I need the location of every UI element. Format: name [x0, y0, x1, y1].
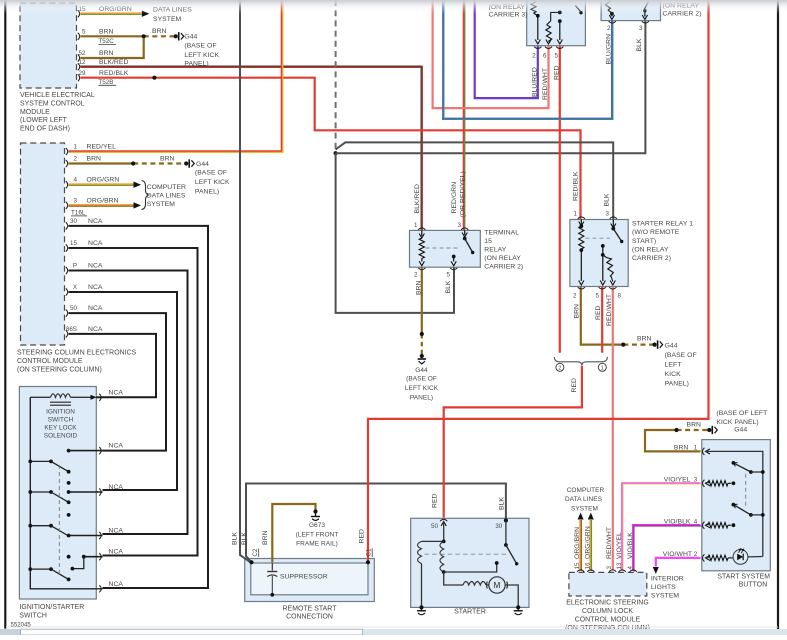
svg-text:NCA: NCA	[88, 240, 103, 247]
ground G44 (module1)	[178, 32, 180, 40]
wire ORG/BRN pin3 module2	[69, 204, 134, 207]
splice G44	[174, 34, 178, 38]
circled 2	[556, 363, 564, 371]
page frame right	[777, 0, 779, 629]
svg-text:X: X	[73, 284, 77, 291]
wire BLK terminal15 pin5 loop	[336, 153, 454, 313]
svg-text:NCA: NCA	[109, 549, 124, 556]
C1 junction	[366, 560, 370, 564]
wire NCA nest 3	[69, 271, 188, 535]
wire ORG/GRN pin4 module2	[69, 183, 134, 186]
motor M	[486, 584, 489, 586]
splice brace (2)(1)	[554, 357, 607, 366]
wire NCA switch pin4	[69, 535, 103, 537]
svg-text:CARRIER 2): CARRIER 2)	[484, 264, 523, 271]
button switch B	[732, 503, 736, 507]
starter switch contact	[444, 564, 497, 573]
svg-text:C1: C1	[366, 548, 373, 556]
wire RED/WHT carrier3 pin6 U-loop to top	[433, 0, 549, 108]
svg-text:INTERIOR: INTERIOR	[651, 576, 684, 583]
svg-text:15: 15	[484, 238, 492, 245]
svg-text:4: 4	[627, 566, 634, 570]
svg-text:(ON STEERING COLUMN): (ON STEERING COLUMN)	[17, 366, 102, 373]
svg-text:C2: C2	[252, 548, 259, 556]
wire BLU/GRN carrier2 pin2 U-loop to top	[443, 0, 613, 120]
svg-text:VEHICLE ELECTRICAL: VEHICLE ELECTRICAL	[20, 92, 95, 99]
terminal 15 relay (box)	[410, 230, 481, 267]
wire VIO/YEL ESCL pin13 to button pin3	[622, 483, 701, 572]
svg-text:DATA LINES: DATA LINES	[565, 496, 603, 503]
carrier3 resistor	[546, 25, 552, 42]
wire BRN pin 52 module1	[81, 38, 144, 58]
svg-text:BRN: BRN	[87, 156, 102, 163]
svg-text:50: 50	[431, 523, 438, 530]
svg-text:G44: G44	[734, 427, 747, 434]
svg-text:BRN: BRN	[160, 155, 175, 162]
svg-text:4: 4	[74, 177, 78, 184]
svg-text:RED: RED	[571, 378, 578, 393]
wire BLK (from top of page down to remote start C2)	[240, 0, 251, 562]
wire BRN suppressor to G673	[272, 504, 315, 562]
ground G44 (module2)	[188, 159, 190, 167]
carrier3 coil	[534, 47, 541, 49]
svg-text:BRN: BRN	[674, 445, 689, 452]
svg-text:ELECTRONIC STEERING: ELECTRONIC STEERING	[566, 600, 649, 607]
svg-text:IGNITION/STARTER: IGNITION/STARTER	[19, 604, 84, 611]
svg-text:G44: G44	[665, 343, 678, 350]
svg-text:LEFT KICK: LEFT KICK	[195, 179, 230, 186]
svg-text:BLU/RED: BLU/RED	[532, 67, 539, 97]
svg-text:COMPUTER: COMPUTER	[567, 487, 605, 494]
relay carrier 2 (box, cut at top)	[601, 0, 660, 21]
wire NCA nest 1	[69, 226, 209, 588]
svg-text:(LOWER LEFT: (LOWER LEFT	[20, 117, 68, 124]
svg-text:ORG/GRN: ORG/GRN	[585, 526, 592, 559]
svg-text:RED: RED	[554, 65, 561, 80]
wire NCA nest 5	[69, 313, 167, 451]
svg-text:86S: 86S	[66, 326, 77, 333]
junction pin5/52 BRN	[142, 34, 146, 38]
wire RED carrier3 pin5 down to splice brace 2	[559, 46, 561, 353]
wire NCA nest 6	[69, 334, 157, 397]
svg-text:BLK: BLK	[604, 193, 611, 206]
page frame left	[4, 0, 6, 629]
svg-text:BRN: BRN	[573, 304, 580, 319]
svg-text:8: 8	[618, 293, 622, 300]
terminal15 relay coil	[418, 228, 425, 230]
module: STEERING COLUMN ELECTRONICS CONTROL MODULE (box)	[21, 143, 65, 345]
svg-text:STARTER RELAY 1: STARTER RELAY 1	[632, 221, 693, 228]
button resistor pin2 + LED	[708, 555, 728, 560]
wire NCA switch pin3	[69, 491, 103, 493]
svg-text:NCA: NCA	[88, 326, 103, 333]
svg-text:30: 30	[495, 523, 502, 530]
button pin connectors	[703, 448, 705, 455]
svg-text:5: 5	[82, 29, 86, 36]
svg-text:RED: RED	[359, 529, 366, 544]
starter relay1 coil	[578, 217, 585, 219]
ground G44 (starter relay 1)	[657, 340, 659, 348]
svg-text:12: 12	[79, 59, 86, 66]
wire BLK splice to relay carrier2 pin3	[336, 21, 646, 153]
svg-text:3: 3	[606, 211, 610, 218]
wire NCA switch pin5	[84, 556, 103, 558]
svg-text:IGNITION: IGNITION	[46, 409, 75, 416]
button resistor pin4	[708, 523, 728, 528]
starter motor branch	[444, 572, 463, 585]
svg-text:1: 1	[601, 366, 604, 372]
svg-text:4: 4	[694, 518, 698, 525]
svg-text:T16L: T16L	[71, 210, 86, 217]
wire BRN start button pin1 to G44	[645, 430, 701, 451]
svg-text:15: 15	[70, 240, 77, 247]
svg-text:REMOTE START: REMOTE START	[283, 606, 338, 613]
svg-text:3: 3	[694, 477, 698, 484]
svg-text:(BASE OF: (BASE OF	[406, 376, 437, 383]
svg-text:NCA: NCA	[109, 443, 124, 450]
svg-text:CONTROL MODULE: CONTROL MODULE	[575, 617, 641, 624]
brace computer data lines	[142, 181, 149, 210]
svg-text:50: 50	[70, 305, 77, 312]
svg-text:5: 5	[555, 53, 559, 60]
svg-text:KICK PANEL): KICK PANEL)	[716, 419, 758, 426]
wire NCA switch pin2	[69, 450, 103, 452]
svg-text:(OR RED/YEL): (OR RED/YEL)	[460, 171, 467, 217]
svg-text:G44: G44	[184, 33, 197, 40]
dashed link starter	[425, 553, 510, 555]
svg-text:MODULE: MODULE	[20, 109, 50, 116]
wire RED/YEL pin1 module2 (up to top of page)	[69, 0, 283, 152]
svg-text:RED/GRN: RED/GRN	[451, 182, 458, 214]
svg-text:BLK: BLK	[241, 532, 248, 545]
svg-text:SYSTEM: SYSTEM	[153, 16, 182, 23]
carrier3 switch blade	[575, 6, 580, 12]
svg-text:T52B: T52B	[98, 79, 113, 86]
wire ORG/GRN pin 15 module1 to DATA LINES SYSTEM	[81, 12, 142, 15]
svg-text:RED: RED	[595, 305, 602, 320]
module: VEHICLE ELECTRICAL SYSTEM CONTROL MODULE (box)	[20, 3, 77, 88]
circled 1	[598, 363, 606, 371]
svg-text:30: 30	[70, 218, 77, 225]
svg-text:BRN: BRN	[637, 336, 652, 343]
svg-text:STARTER: STARTER	[454, 609, 486, 616]
electronic steering column lock control module (box)	[569, 572, 647, 596]
svg-text:VIO/WHT: VIO/WHT	[663, 551, 692, 558]
svg-text:CONNECTION: CONNECTION	[286, 614, 333, 621]
svg-text:(W/O REMOTE: (W/O REMOTE	[632, 229, 680, 236]
svg-text:G673: G673	[309, 522, 325, 529]
svg-text:2: 2	[607, 25, 611, 32]
wire BRN pin2 module2	[69, 162, 134, 164]
svg-text:RED/YEL: RED/YEL	[87, 144, 117, 151]
svg-text:NCA: NCA	[109, 484, 124, 491]
svg-text:BRN: BRN	[99, 50, 114, 57]
svg-text:BRN: BRN	[416, 280, 423, 295]
svg-text:16: 16	[585, 562, 592, 569]
svg-text:M: M	[494, 581, 501, 590]
wire NCA nest 4	[69, 292, 178, 490]
svg-text:P: P	[73, 263, 77, 270]
svg-text:PANEL): PANEL)	[184, 61, 208, 68]
svg-text:SYSTEM: SYSTEM	[651, 593, 680, 600]
ground G673	[315, 514, 317, 517]
svg-text:CONTROL MODULE: CONTROL MODULE	[17, 358, 83, 365]
starter pin 30 junction	[504, 518, 508, 522]
svg-text:SYSTEM: SYSTEM	[571, 506, 598, 513]
svg-text:DATA LINES: DATA LINES	[147, 193, 186, 200]
svg-text:3: 3	[639, 25, 643, 32]
wire BRN starter relay1 pin2 to G44	[581, 287, 624, 345]
button switch A	[732, 461, 736, 465]
svg-text:1: 1	[74, 144, 78, 151]
starter pin 50 connector	[440, 519, 447, 521]
svg-text:2: 2	[558, 366, 561, 372]
svg-text:(ON RELAY: (ON RELAY	[484, 255, 521, 262]
wire BRN dashed splice to G44	[144, 35, 176, 37]
svg-text:15: 15	[574, 562, 581, 569]
svg-text:13: 13	[616, 562, 623, 569]
switch blades ignition/starter switch	[28, 460, 32, 464]
ignition switch key lock solenoid	[96, 396, 102, 398]
suppressor (inner box)	[251, 563, 368, 595]
start system button (box)	[702, 440, 771, 571]
svg-text:BRN: BRN	[152, 28, 167, 35]
svg-text:(BASE OF: (BASE OF	[195, 170, 227, 177]
starter relay1 switch	[612, 220, 614, 227]
svg-text:SWITCH: SWITCH	[48, 417, 74, 424]
svg-text:BLK: BLK	[636, 38, 643, 51]
svg-text:RED/WHT: RED/WHT	[606, 527, 613, 559]
svg-text:VIO/BLK: VIO/BLK	[627, 532, 634, 559]
starter relay1 resistor	[601, 253, 605, 257]
button resistor pin3	[708, 481, 728, 486]
svg-text:RED/BLK: RED/BLK	[573, 171, 580, 201]
starter hold-in coil	[440, 541, 444, 572]
svg-text:BLU/GRN: BLU/GRN	[606, 34, 613, 65]
remote start connection (box)	[245, 559, 375, 602]
svg-text:SOLENOID: SOLENOID	[44, 433, 78, 440]
svg-text:BLK: BLK	[498, 497, 505, 510]
starter pull-in coil	[422, 540, 444, 542]
svg-text:2: 2	[532, 53, 536, 60]
wire BLK remote start C2 up/over to starter pin30	[246, 484, 506, 563]
svg-text:6: 6	[543, 53, 547, 60]
wire BLK jog to starter relay1 pin3	[336, 142, 614, 219]
wire BRN terminal15 pin2 to G44	[421, 267, 423, 334]
svg-text:5: 5	[596, 293, 600, 300]
svg-text:VIO/YEL: VIO/YEL	[664, 477, 691, 484]
svg-text:3: 3	[74, 197, 78, 204]
svg-text:VIO/BLK: VIO/BLK	[664, 518, 691, 525]
svg-text:(LEFT FRONT: (LEFT FRONT	[296, 532, 339, 539]
wire RED/BLK pin 29 module1 to starter relay1 pin1	[81, 78, 581, 220]
svg-text:52: 52	[79, 50, 86, 57]
carrier2 switch	[644, 2, 648, 10]
svg-text:NCA: NCA	[88, 263, 103, 270]
svg-text:2: 2	[414, 272, 418, 279]
svg-text:1: 1	[414, 222, 418, 229]
terminal15 relay switch	[464, 230, 466, 235]
svg-text:RED/WHT: RED/WHT	[606, 294, 613, 326]
svg-text:BLK: BLK	[231, 532, 238, 545]
svg-text:3: 3	[606, 566, 613, 570]
svg-text:BRN: BRN	[99, 29, 114, 36]
wire BLU/RED carrier3 pin2 U-loop to top	[475, 0, 538, 98]
svg-text:FRAME RAIL): FRAME RAIL)	[296, 541, 338, 548]
svg-text:SYSTEM CONTROL: SYSTEM CONTROL	[20, 101, 85, 108]
svg-text:KEY LOCK: KEY LOCK	[44, 425, 77, 432]
wire BLK/RED pin 12 module1 to terminal15 relay pin1	[80, 66, 422, 230]
svg-text:NCA: NCA	[109, 528, 124, 535]
svg-text:SWITCH: SWITCH	[19, 613, 46, 620]
svg-text:NCA: NCA	[109, 581, 124, 588]
top gradient band	[0, 0, 787, 14]
svg-text:ORG/BRN: ORG/BRN	[574, 527, 581, 559]
svg-text:RED: RED	[431, 493, 438, 508]
svg-text:1: 1	[694, 445, 698, 452]
svg-text:(BASE OF LEFT: (BASE OF LEFT	[716, 410, 767, 417]
svg-text:5: 5	[447, 272, 451, 279]
svg-text:BLK: BLK	[445, 280, 452, 293]
svg-text:NCA: NCA	[88, 305, 103, 312]
svg-text:2: 2	[74, 156, 78, 163]
svg-text:ORG/GRN: ORG/GRN	[87, 177, 120, 184]
ground G44 (terminal 15 relay)	[418, 358, 426, 360]
wire BRN pin 5 module1	[81, 35, 144, 37]
svg-text:RED/BLK: RED/BLK	[99, 70, 129, 77]
svg-text:VIO/YEL: VIO/YEL	[616, 532, 623, 559]
svg-text:(BASE OF: (BASE OF	[184, 42, 216, 49]
svg-text:PANEL): PANEL)	[195, 189, 219, 196]
svg-text:RELAY: RELAY	[484, 247, 506, 254]
svg-text:LIGHTS: LIGHTS	[651, 584, 676, 591]
svg-text:BUTTON: BUTTON	[739, 582, 768, 589]
svg-text:G44: G44	[415, 367, 428, 374]
svg-text:BLK/RED: BLK/RED	[99, 59, 128, 66]
svg-text:NCA: NCA	[88, 284, 103, 291]
wire NCA nest 2	[69, 248, 198, 556]
mechanical link (dashed)	[58, 465, 60, 576]
starter ground right	[516, 605, 520, 609]
wire BLK dashed (from top of page)	[335, 0, 337, 152]
svg-text:29: 29	[79, 70, 86, 77]
wire RED remote start C1 up/over to top right	[368, 0, 709, 562]
ground G44 (start button)	[711, 426, 713, 434]
svg-text:BLK/RED: BLK/RED	[414, 184, 421, 213]
relay carrier 3 (box, cut at top)	[527, 0, 586, 46]
wire ORG/BRN ESCL pin15 up arrow	[579, 520, 582, 571]
svg-text:552045: 552045	[11, 623, 32, 629]
svg-text:TERMINAL: TERMINAL	[484, 230, 519, 237]
contact dots column	[67, 449, 71, 453]
svg-text:START): START)	[632, 238, 656, 245]
carrier2 coil	[609, 21, 616, 23]
wire VIO/BLK ESCL pin4 to button pin4	[633, 525, 701, 572]
svg-text:2: 2	[573, 293, 577, 300]
svg-text:COLUMN LOCK: COLUMN LOCK	[582, 608, 633, 615]
wire VIO/WHT button pin2 to interior lights	[656, 558, 701, 567]
wire RED brace to starter pin 50	[444, 366, 582, 518]
starter relay 1 (box)	[570, 220, 628, 287]
button top wire + right rail	[706, 451, 763, 556]
wire RED starter relay1 pin5 down to splice brace 1	[601, 287, 603, 353]
ignition/starter switch (box)	[19, 387, 96, 600]
wire RED/GRN (OR RED/YEL) from top to terminal15 pin3	[463, 0, 466, 230]
wire ORG/GRN ESCL pin16 up arrow	[589, 520, 592, 571]
splice on RED/BLK	[152, 76, 156, 80]
svg-text:NCA: NCA	[109, 389, 124, 396]
svg-text:STEERING COLUMN ELECTRONICS: STEERING COLUMN ELECTRONICS	[17, 350, 137, 357]
svg-text:2: 2	[694, 551, 698, 558]
svg-text:PANEL): PANEL)	[410, 395, 433, 402]
svg-text:1: 1	[574, 211, 578, 218]
starter ground left	[419, 605, 423, 609]
svg-text:SYSTEM: SYSTEM	[147, 201, 176, 208]
svg-text:G44: G44	[196, 161, 209, 168]
svg-text:BRN: BRN	[687, 422, 702, 429]
starter (box)	[411, 518, 529, 607]
svg-text:(ON RELAY: (ON RELAY	[632, 246, 669, 253]
svg-text:COMPUTER: COMPUTER	[147, 184, 186, 191]
svg-text:(BASE OF: (BASE OF	[665, 352, 697, 359]
svg-text:KICK: KICK	[665, 371, 681, 378]
svg-text:RED/WHT: RED/WHT	[542, 68, 549, 100]
svg-text:LEFT: LEFT	[665, 362, 682, 369]
svg-text:START SYSTEM: START SYSTEM	[717, 574, 770, 581]
svg-text:NCA: NCA	[88, 218, 103, 225]
svg-text:LEFT KICK: LEFT KICK	[184, 52, 219, 59]
wire RED/WHT starter relay1 pin8 down to ESCL module pin3	[612, 287, 614, 570]
svg-text:PANEL): PANEL)	[665, 381, 689, 388]
svg-text:BRN: BRN	[262, 530, 269, 545]
button dashed link	[745, 474, 747, 506]
svg-text:CARRIER 2): CARRIER 2)	[632, 255, 671, 262]
svg-text:END OF DASH): END OF DASH)	[20, 125, 70, 132]
svg-text:SUPPRESSOR: SUPPRESSOR	[280, 574, 328, 581]
svg-text:3: 3	[458, 222, 462, 229]
bottom status bar	[0, 629, 787, 635]
svg-text:ORG/BRN: ORG/BRN	[87, 197, 119, 204]
C2 junction	[249, 560, 253, 564]
svg-text:LEFT KICK: LEFT KICK	[405, 385, 439, 392]
svg-text:T52C: T52C	[98, 38, 114, 45]
switch left rail	[30, 397, 102, 589]
